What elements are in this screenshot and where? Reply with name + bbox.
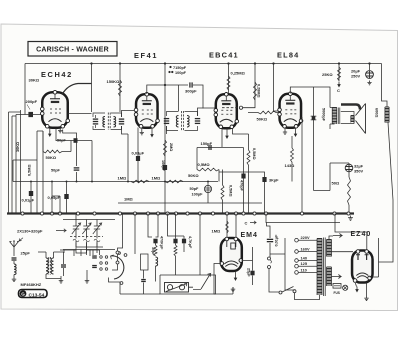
tap 110 (295, 271, 299, 275)
wire IFT2 left down (166, 126, 168, 134)
arrow C2 (250, 221, 256, 224)
bus junction ring (40, 212, 43, 215)
bus junction ring (253, 212, 256, 215)
coil ant (14, 264, 16, 275)
resistor 0.25M plate (227, 76, 230, 90)
capacitor osc pad a (92, 255, 97, 256)
junction on top bus (90, 62, 92, 64)
tube EBC41 (216, 94, 237, 128)
wire osc cap (60, 252, 64, 276)
junction on top bus (368, 62, 370, 64)
ground em4 (231, 287, 236, 292)
chassis bus (7, 212, 354, 214)
IFT2 frame wires (167, 112, 198, 131)
wire IFT2 out (198, 108, 217, 116)
bus junction ring (118, 212, 121, 215)
bus junction ring (50, 212, 53, 215)
arrow EZ40 (356, 287, 358, 290)
arrow EM4 (235, 275, 237, 278)
wire 20uF drop (369, 64, 371, 71)
wire osc coil tops (38, 252, 60, 258)
capacitor osc pad b (92, 265, 97, 266)
junction on top bus (338, 62, 340, 64)
wire 50pF link (56, 141, 92, 182)
osc coil 2 (51, 258, 53, 274)
wire det verts (208, 170, 223, 214)
wire left AVC drop (13, 160, 37, 182)
tube EF41 (136, 94, 158, 128)
capacitor 470pF (241, 174, 245, 179)
EBC41 dash line (222, 107, 243, 109)
IFT2 cap right (195, 118, 200, 119)
wire ant down (13, 261, 15, 264)
tap 125 (295, 264, 299, 268)
tap 220V (295, 238, 299, 242)
wire AVC line (13, 181, 218, 183)
wire em4 drop a (226, 214, 228, 239)
wire ant gnd stub (13, 275, 15, 278)
wire 470 vert (222, 148, 244, 214)
wire switch to xfmr (285, 290, 320, 300)
wire 0.01 vert (30, 182, 32, 214)
IFT1 coil left (103, 117, 105, 128)
wire col 148 (148, 214, 152, 238)
EBC41 ring (239, 106, 242, 109)
IFT1 coil right (114, 117, 116, 128)
junction on AVC line (30, 181, 32, 183)
junction on AVC line (164, 181, 166, 183)
switch contact right b (116, 261, 119, 264)
wire el84 cath res (291, 136, 293, 148)
field coil (385, 106, 389, 108)
tap 160V (295, 250, 299, 254)
osc coil 1 (46, 258, 48, 274)
IFT1 cap left (93, 118, 98, 119)
bus junction ring (93, 212, 96, 215)
wire left col 2 (11, 116, 13, 214)
tube EZ40 (352, 251, 373, 283)
wire below-bus link (266, 214, 340, 223)
junction on AVC line (137, 181, 139, 183)
switch contact right a (116, 251, 119, 254)
gang arrow (56, 229, 66, 232)
capacitor osc (61, 264, 66, 265)
resistor 0.5M det (197, 168, 219, 171)
wire det line (118, 202, 262, 204)
wire EL84 g2 drop (274, 64, 281, 112)
bus junction ring (166, 212, 169, 215)
capacitor 0.05uF (64, 194, 68, 199)
junction on top bus (164, 62, 166, 64)
junction on AVC line (76, 181, 78, 183)
wire left col 3 (15, 115, 17, 214)
wire IFT1 to EF41 grid (122, 111, 137, 118)
wire col 175 (175, 214, 177, 276)
switch contact (105, 262, 108, 265)
wire top HT bus (25, 63, 382, 65)
resistor 25K (338, 67, 341, 81)
logo badge (19, 290, 48, 298)
wire em4 gnd stub (232, 287, 234, 294)
wire EF41 plate up (147, 85, 188, 94)
wire left col 1 (8, 112, 10, 214)
switch ring c (118, 252, 121, 255)
trimmer under gang 1 (73, 237, 79, 250)
arrow EF41 (151, 132, 153, 135)
top arrow xfmr (333, 234, 342, 238)
ground 20uF (367, 81, 371, 85)
wire ech42 g down (55, 128, 57, 141)
antenna trim arrow (19, 238, 23, 241)
xfmr primary (317, 238, 322, 240)
IFT1 core (108, 113, 110, 131)
resistor 0.28M (254, 82, 257, 100)
capacitor 32uF (345, 164, 353, 172)
junction on top bus (119, 62, 121, 64)
wire 150pF line (197, 147, 222, 149)
switch contact (100, 268, 103, 271)
resistor 1M a (131, 180, 149, 183)
capacitor IF can foot (141, 279, 146, 280)
wire can drop (135, 214, 144, 295)
wire EBC41 plate drop (228, 64, 230, 94)
wire 25uF vert (242, 247, 253, 285)
capacitor 0.01uF (29, 191, 33, 196)
wire 25K drop (338, 64, 340, 82)
capacitor c148 (153, 239, 157, 244)
bus junction ring (242, 212, 245, 215)
wire AA to 200pF cap (24, 64, 26, 115)
wire bus to switch right (112, 214, 123, 271)
arrow C feed (338, 82, 340, 85)
bus junction ring (211, 212, 214, 215)
wire mains link (269, 238, 285, 292)
capacitor 50pF low (74, 167, 80, 168)
speaker cone (356, 104, 366, 134)
bus junction ring (58, 212, 61, 215)
junction on AVC line (207, 181, 209, 183)
switch contact (105, 256, 108, 259)
wire switch feeds (76, 241, 103, 255)
wire el84 arrow stub (295, 128, 297, 132)
wire switch out (109, 278, 161, 295)
wire OT left (330, 104, 335, 129)
junction on top bus (272, 62, 274, 64)
wire col 184 (156, 214, 185, 253)
bus junction ring (146, 212, 149, 215)
xfmr HT secondary (327, 239, 332, 241)
bus junction ring (225, 212, 228, 215)
bus junction ring (347, 212, 350, 215)
ground chassis end (348, 216, 353, 221)
resistor 1M em4 (226, 221, 229, 233)
IFT2 core (182, 111, 184, 131)
wire c148 down (155, 243, 157, 282)
capacitor 300pF (189, 82, 190, 87)
wire osc grid col (63, 130, 77, 182)
wire ez40 k stub (355, 283, 356, 287)
wire ech42 osc out (68, 113, 92, 115)
wire det vert a (197, 148, 219, 182)
OT primary (332, 107, 337, 109)
wire IF2 B+ drop (164, 64, 166, 214)
wire 0.5M right vert (236, 134, 249, 214)
wire pot frame (160, 214, 216, 295)
IF can rect (141, 254, 149, 270)
bus junction ring (300, 212, 303, 215)
antenna (10, 241, 20, 256)
wire osc gnd link (46, 274, 61, 279)
wire 5ohm h (329, 163, 331, 191)
label 7150pF (169, 66, 171, 68)
wire el84 plate top (290, 87, 330, 104)
wire xfmr top feeds (329, 214, 367, 252)
wire 0.05 vert (66, 182, 68, 214)
wire EF41 k stub (141, 128, 143, 131)
wire switch gnd (86, 270, 88, 279)
capacitor 3KpF (262, 177, 266, 182)
variable capacitor gang 1 (73, 220, 79, 238)
wire IFT1 right down (122, 126, 129, 182)
wire left col 4 (20, 110, 22, 214)
bus junction ring (264, 212, 267, 215)
wire gang to osc links (60, 250, 97, 253)
wire EBC41 k (226, 129, 228, 134)
wire left col top (9, 112, 21, 116)
switch arrow right (201, 274, 211, 290)
ground switch (85, 279, 90, 284)
trimmer under gang 3 (94, 237, 100, 250)
wire left col 5 (36, 131, 38, 214)
ground osc (59, 279, 64, 284)
resistor 150K (119, 80, 122, 96)
tube EM4 (221, 238, 242, 271)
wire left col 6 (42, 131, 44, 214)
OT core (338, 108, 340, 125)
xfmr heater secondary (327, 266, 332, 268)
IFT2 coil right (187, 116, 189, 128)
wire grid to tube (16, 114, 43, 116)
mains switch (279, 291, 282, 294)
wire EBC41 dash to 0.28M (243, 105, 255, 108)
osc core 1 (49, 257, 51, 275)
wire el84 grid (248, 112, 280, 114)
junction on AVC line (66, 181, 68, 183)
bus junction ring (133, 212, 136, 215)
capacitor 25uF (250, 271, 254, 276)
heater arrow (332, 275, 342, 279)
switch contact (100, 256, 103, 259)
wire 32uF vert (330, 163, 349, 214)
wire HT to EZ40 (332, 251, 354, 253)
resistor 143ohm (291, 148, 294, 162)
wire EBC41 diode (233, 129, 237, 135)
wire em4 arrow stub (235, 271, 237, 275)
junction on AVC line (91, 181, 93, 183)
switch wiper arc (111, 256, 124, 279)
resistor 2M (164, 140, 167, 156)
resistor r155 (154, 245, 157, 256)
bus junction ring (333, 212, 336, 215)
resistor 1M b (165, 180, 183, 183)
speaker frame (341, 112, 354, 124)
capacitor 0.01 mains (267, 239, 273, 240)
wire ech42 anode arc (62, 84, 92, 95)
speaker voice coil (351, 115, 354, 117)
capacitor 150pF (208, 145, 209, 150)
xfmr core (323, 238, 325, 297)
junction on top bus (254, 62, 256, 64)
ground ech42 (58, 129, 62, 133)
title box (28, 42, 117, 57)
capacitor ant (12, 257, 17, 258)
IFT1 cap right (119, 118, 124, 119)
IFT1 frame wires (93, 113, 122, 130)
wire 0.28M drop (254, 64, 256, 106)
wire 143 down (291, 162, 293, 182)
resistor 0.5M right (247, 150, 250, 165)
arrow ech42 cathode (49, 131, 51, 134)
wire 50K box (43, 131, 71, 152)
capacitor 100pF mid (163, 165, 167, 170)
wire osc feed line (63, 250, 115, 257)
fuse (333, 284, 341, 289)
scan texture filter (0, 0, 1, 1)
wire 52 60 verts (52, 182, 60, 214)
junction y85 x165 (164, 84, 166, 86)
resistor 50K el84 grid (258, 111, 276, 114)
wire osc anode drop (91, 64, 93, 113)
tap 140 (295, 259, 299, 263)
wire ez40 out right (370, 276, 379, 278)
wire ech42 k stub (49, 128, 51, 132)
bus junction ring (234, 212, 237, 215)
wire el84 right pin (301, 118, 302, 214)
wire el84 k stub (284, 128, 286, 131)
capacitor c184 (182, 239, 186, 244)
bus junction ring (186, 212, 189, 215)
speaker magnet hook (341, 105, 360, 110)
IFT2 cap left (164, 118, 169, 119)
arrow EBC41 (226, 133, 228, 136)
ground ant (12, 277, 17, 282)
bus junction ring (21, 212, 24, 215)
wire IFT2 primary feed (178, 85, 180, 112)
tube EL84 (280, 94, 302, 128)
gang top feed (63, 214, 115, 220)
arrow EL84 (295, 131, 297, 134)
junction on top bus (227, 62, 229, 64)
PU jack a (268, 257, 271, 260)
variable capacitor gang 2 (83, 220, 89, 238)
switch contact (100, 262, 103, 265)
switch ring d (124, 254, 127, 257)
gang link dash (70, 236, 103, 238)
PU jack b (268, 266, 271, 269)
pilot lamp (343, 285, 348, 290)
resistor 0.5M v (221, 185, 224, 200)
capacitor 200pF (28, 112, 33, 117)
wire EBC41 g down (221, 129, 223, 148)
wire ez40 heater (366, 283, 368, 297)
wire 0.01 mains vert (267, 223, 271, 258)
label 100pF2 (168, 71, 170, 73)
tube ECH42 (42, 92, 68, 128)
resistor r175 (174, 245, 177, 256)
trimmer under gang 2 (84, 237, 90, 250)
ground EF41 cathode (140, 131, 144, 135)
wire em4 drop b (235, 214, 237, 239)
wire em4 left (214, 264, 233, 295)
variable capacitor gang 3 (94, 220, 100, 238)
switch contact (105, 268, 108, 271)
junction on AVC line (127, 181, 129, 183)
bus junction ring (76, 212, 79, 215)
wire 300pF to IFT2 (193, 85, 203, 109)
volume pot (165, 283, 189, 293)
resistor 50K ech42 (43, 150, 62, 153)
ground EL84 (283, 130, 287, 134)
capacitor 50pF (74, 138, 78, 143)
ground EZ40 (364, 296, 369, 301)
wire 150K screen drop (119, 64, 121, 113)
wire 5000 drop (313, 87, 315, 191)
wire right HT down (382, 64, 388, 108)
coil l155 (156, 257, 158, 266)
wire left col 5 top (37, 130, 43, 132)
wire EF41 arrow stub (151, 128, 153, 132)
capacitor 20uF can (366, 71, 374, 79)
bus junction ring (174, 212, 177, 215)
capacitor c175a (173, 239, 177, 244)
switch ring e (120, 282, 123, 285)
capacitor 5000pF (312, 116, 316, 120)
junction on AVC line (51, 181, 53, 183)
bus junction ring (156, 212, 159, 215)
resistor 50ohm (348, 177, 351, 205)
wire 0.03 drop (137, 128, 139, 182)
capacitor 0.03uF (136, 156, 140, 161)
bus junction ring (198, 212, 201, 215)
wire field coil down (379, 123, 394, 278)
wire B+ mid (314, 190, 331, 192)
trimmer cap 50pF (204, 185, 211, 192)
IFT2 coil left (176, 116, 178, 128)
wire 3KpF vert (219, 172, 265, 214)
